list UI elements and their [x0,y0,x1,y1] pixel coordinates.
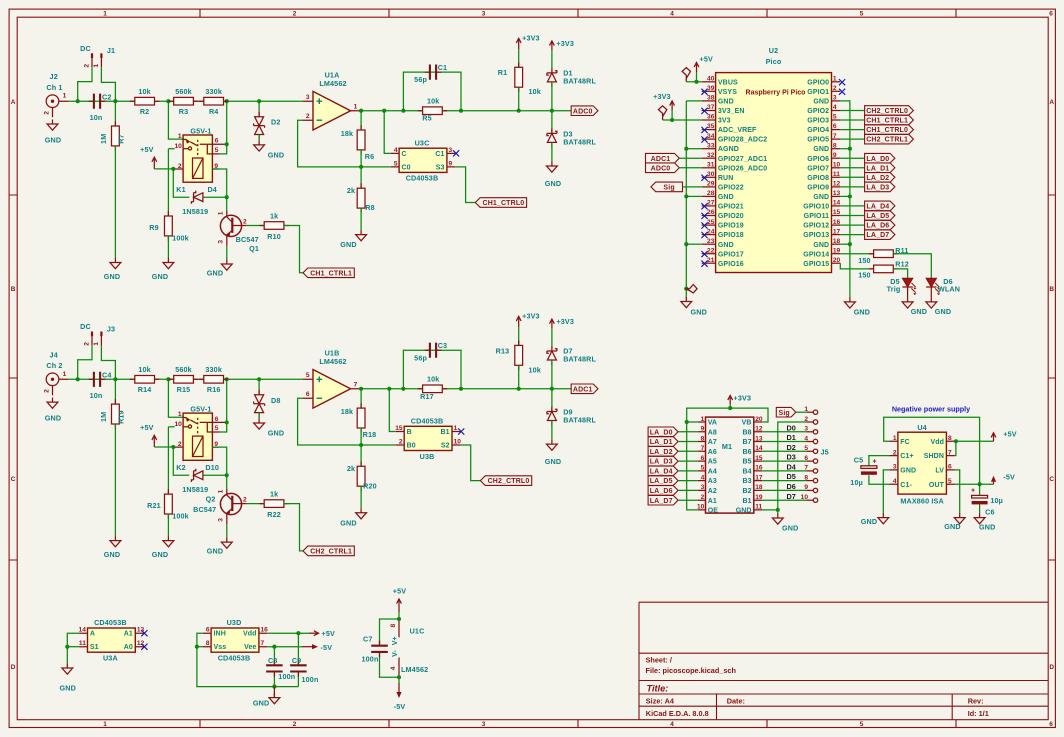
svg-text:GND: GND [253,699,269,708]
svg-text:GND: GND [690,307,706,316]
analog switch U3A CD4053B spare [79,618,145,662]
svg-text:ADC1: ADC1 [651,156,671,163]
resistor R12 150 LED series [840,259,909,279]
svg-text:1: 1 [218,211,225,215]
svg-text:D: D [1049,664,1054,671]
svg-text:1: 1 [93,64,100,68]
svg-text:7: 7 [261,640,265,647]
svg-text:B1: B1 [742,498,751,505]
global label Sig to J5 [776,407,796,417]
svg-text:GPIO10: GPIO10 [803,204,829,211]
capacitor C5 10u [850,456,889,487]
svg-text:C1: C1 [438,63,448,72]
svg-text:2: 2 [84,342,91,346]
svg-text:1: 1 [833,76,837,83]
svg-text:56p: 56p [414,75,427,84]
svg-text:C2: C2 [102,93,112,102]
resistor R9 100k [149,211,189,258]
svg-text:J2: J2 [50,72,58,81]
svg-text:24: 24 [707,228,715,235]
diode D4 1N5819 flyback [182,191,228,216]
svg-text:2: 2 [243,218,247,225]
resistor R21 100k [147,489,189,536]
svg-text:LA_D0: LA_D0 [650,429,673,436]
svg-text:-5V: -5V [1003,473,1015,482]
svg-text:6: 6 [701,455,705,462]
svg-text:5: 5 [948,478,952,485]
svg-text:2: 2 [178,441,182,448]
global label LA_D0 from U2 [840,153,895,163]
svg-text:File: picoscope.kicad_sch: File: picoscope.kicad_sch [646,666,736,675]
svg-text:10k: 10k [529,87,541,96]
svg-text:10: 10 [833,161,841,168]
power +3V3 at D1 [550,39,574,68]
wire: op-amp output net [359,109,571,113]
svg-text:GND: GND [545,179,561,188]
svg-text:GPIO3: GPIO3 [807,118,829,125]
svg-text:GPIO26_ADC0: GPIO26_ADC0 [718,165,767,172]
svg-text:Q2: Q2 [206,495,216,504]
svg-text:3: 3 [306,94,310,101]
svg-text:3: 3 [218,240,225,244]
wire: U3B control input [389,389,396,432]
svg-text:8: 8 [701,435,705,442]
svg-text:D7: D7 [787,492,796,501]
svg-text:16: 16 [261,627,269,634]
svg-text:+3V3: +3V3 [556,317,574,326]
svg-text:11: 11 [79,640,86,647]
wire and net label D4: M1 to J5 [762,463,806,472]
svg-text:CH1_CTRL1: CH1_CTRL1 [310,270,352,277]
wire: channel 2 input net [68,350,302,422]
title block [639,602,1048,720]
svg-text:J4: J4 [50,350,58,359]
svg-text:Raspberry Pi Pico: Raspberry Pi Pico [746,89,806,96]
svg-text:A3: A3 [708,478,717,485]
svg-text:6: 6 [215,138,219,145]
svg-text:S2: S2 [441,443,450,450]
global label LA_D1 to M1 [648,437,698,447]
power +5V at relay K1 [140,145,157,169]
svg-text:20: 20 [833,257,841,264]
svg-text:1M: 1M [99,412,108,422]
global label CH2_CTRL0 [460,445,531,485]
diode D3 BAT48RL clamp low [547,111,597,162]
svg-text:2: 2 [243,496,247,503]
wire: feedback to inverting input [298,398,396,447]
svg-text:LA_D5: LA_D5 [866,213,889,220]
global label LA_D3 from U2 [840,182,895,192]
svg-text:GND: GND [340,240,356,249]
svg-text:LA_D3: LA_D3 [866,185,889,192]
wire: U3A inputs to ground [65,633,79,663]
svg-text:3: 3 [833,95,837,102]
svg-text:A: A [90,631,95,638]
svg-text:U1C: U1C [410,627,425,636]
global label CH2_CTRL0 from U2 [840,106,913,116]
svg-text:GND: GND [104,272,120,281]
svg-text:32: 32 [707,152,715,159]
ground below U4 GND [861,513,889,526]
capacitor C3 56p feedback [403,341,461,389]
svg-text:22: 22 [707,247,715,254]
connector J4 BNC input [43,350,68,395]
svg-text:Vee: Vee [244,644,256,651]
svg-text:R6: R6 [365,152,375,161]
svg-text:C9: C9 [292,656,302,665]
svg-text:LM4562: LM4562 [319,79,346,88]
svg-text:ADC0: ADC0 [573,108,593,115]
svg-text:27: 27 [707,200,715,207]
connector J5 [801,406,829,502]
svg-text:GPIO7: GPIO7 [807,165,829,172]
svg-text:1k: 1k [270,212,278,221]
svg-text:3: 3 [482,721,486,728]
svg-text:GND: GND [813,146,829,153]
svg-text:B1: B1 [440,429,449,436]
svg-text:BAT48RL: BAT48RL [563,416,596,425]
svg-text:+3V3: +3V3 [653,92,671,101]
svg-text:4: 4 [394,147,398,154]
wire: U3D Vdd to +5V [267,631,309,635]
svg-text:2: 2 [833,85,837,92]
svg-text:1: 1 [178,411,182,418]
power -5V at U4 [991,473,1015,485]
svg-text:BC547: BC547 [236,235,259,244]
LED D6 WLAN [926,277,960,298]
svg-text:37: 37 [707,104,715,111]
svg-text:B: B [11,286,16,293]
svg-text:15: 15 [755,455,763,462]
svg-text:ADC1: ADC1 [573,386,593,393]
global label LA_D2 from U2 [840,173,895,183]
relay K2 G5V-1 [174,405,226,472]
svg-text:D4: D4 [207,185,217,194]
global label LA_D4 from U2 [840,201,895,211]
svg-text:LA_D4: LA_D4 [866,204,889,211]
svg-text:25: 25 [707,219,715,226]
power +5V at U1C [393,586,406,619]
svg-text:M1: M1 [722,442,732,451]
svg-text:560k: 560k [175,87,192,96]
global label LA_D7 from U2 [840,230,895,240]
svg-text:16: 16 [833,219,841,226]
wire: M1 supply net [685,406,768,510]
svg-text:GND: GND [545,457,561,466]
svg-text:13: 13 [755,435,763,442]
svg-text:1: 1 [178,133,182,140]
svg-text:+3V3: +3V3 [522,34,540,43]
svg-text:1k: 1k [270,490,278,499]
ground below D2 [254,140,285,159]
no-connect on U3B [458,428,464,434]
svg-text:31: 31 [707,161,715,168]
svg-text:GPIO8: GPIO8 [807,175,829,182]
svg-text:35: 35 [707,123,715,130]
svg-text:OUT: OUT [929,482,945,489]
svg-text:GPIO0: GPIO0 [807,79,829,86]
svg-text:A7: A7 [708,439,717,446]
svg-text:10: 10 [697,504,705,511]
svg-text:1: 1 [893,435,897,442]
svg-text:33: 33 [707,142,715,149]
svg-text:A5: A5 [708,459,717,466]
svg-text:GND: GND [813,242,829,249]
power -5V at U1C [394,677,406,711]
svg-text:Sheet: /: Sheet: / [646,655,672,664]
ground below D6 [926,297,951,315]
svg-text:A2: A2 [708,488,717,495]
wire and net label D6: M1 to J5 [762,482,806,491]
svg-text:CD4053B: CD4053B [406,174,439,183]
power -5V right arrow [302,643,332,652]
svg-text:J3: J3 [107,324,115,333]
no-connect pins on U2 right [839,79,845,95]
wire: M1 GND pin to ground [762,508,780,514]
svg-text:R17: R17 [420,392,434,401]
svg-text:A: A [11,99,16,106]
ground below R19 [104,536,121,559]
global label LA_D7 to M1 [648,495,698,505]
wire: channel 1 input net [68,72,302,144]
svg-text:9: 9 [701,426,705,433]
svg-text:GPIO13: GPIO13 [803,232,829,239]
global label LA_D4 to M1 [648,466,698,476]
svg-text:3: 3 [449,147,453,154]
svg-text:10k: 10k [138,365,150,374]
svg-text:100k: 100k [172,234,189,243]
svg-text:6: 6 [948,464,952,471]
svg-text:+5V: +5V [393,586,406,595]
svg-text:D8: D8 [271,396,281,405]
wire: 3V3 to +3V3 [663,118,702,122]
svg-text:B7: B7 [742,439,751,446]
svg-text:10µ: 10µ [850,478,863,487]
resistor R2 10k [130,87,159,116]
svg-text:LV: LV [935,468,944,475]
svg-text:18k: 18k [341,407,353,416]
ground below R20 [340,508,366,527]
global label ADC1 output [571,384,598,394]
svg-text:7: 7 [701,445,705,452]
svg-text:7: 7 [354,382,358,389]
svg-text:GND: GND [736,508,752,515]
global label ADC0 output [571,106,598,116]
svg-text:CH1_CTRL1: CH1_CTRL1 [866,118,908,125]
svg-text:GPIO19: GPIO19 [718,223,744,230]
no-connect on U3A pin 12 [141,644,147,650]
wire: U3C control input [384,111,391,154]
op-amp U1B LM4562 [303,349,362,409]
global label CH1_CTRL0 from U2 [840,125,913,135]
svg-text:2: 2 [893,449,897,456]
svg-text:U3B: U3B [420,452,435,461]
svg-text:56p: 56p [414,353,427,362]
svg-text:1M: 1M [99,134,108,144]
diode D7 BAT48RL clamp high [547,346,597,389]
svg-text:1: 1 [63,371,67,378]
svg-text:10: 10 [454,438,462,445]
svg-text:LA_D2: LA_D2 [650,449,673,456]
svg-text:R3: R3 [179,107,189,116]
svg-text:2: 2 [178,163,182,170]
resistor R14 10k [130,365,159,394]
svg-text:5: 5 [860,11,864,18]
svg-text:3: 3 [218,518,225,522]
svg-text:28: 28 [707,190,715,197]
switch J3 DC coupling jumper [80,322,115,350]
svg-text:INH: INH [214,631,226,638]
svg-text:GPIO22: GPIO22 [718,185,744,192]
svg-text:FC: FC [900,439,910,446]
ground below M1 [772,514,798,533]
svg-text:3: 3 [893,464,897,471]
svg-text:1: 1 [701,416,705,423]
svg-text:560k: 560k [175,365,192,374]
global label LA_D0 to M1 [648,427,698,437]
svg-text:2: 2 [293,721,297,728]
resistor R16 330k [199,365,228,394]
svg-text:MAX860 ISA: MAX860 ISA [900,497,943,506]
svg-text:29: 29 [707,181,715,188]
wire: U2 left ground bus [684,101,701,298]
wire: U4 GND pin to ground [883,470,889,513]
svg-text:330k: 330k [205,87,222,96]
svg-text:V-: V- [392,650,399,657]
global label ADC0 to U2 [646,163,680,173]
svg-text:5: 5 [306,372,310,379]
svg-text:GND: GND [59,684,75,693]
svg-text:LA_D3: LA_D3 [650,459,673,466]
connector J2 BNC input [43,72,68,117]
svg-text:+3V3: +3V3 [734,393,752,402]
svg-text:BC547: BC547 [193,505,216,514]
ground below R21 [152,536,174,559]
no-connect pins on U2 left [701,89,707,267]
svg-text:6: 6 [206,627,210,634]
ground below U3A [59,664,75,693]
svg-text:21: 21 [707,257,715,264]
bus buffer M1 [697,416,763,515]
svg-text:Vdd: Vdd [243,631,257,638]
svg-text:GPIO27_ADC1: GPIO27_ADC1 [718,156,767,163]
svg-text:BAT48RL: BAT48RL [563,77,596,86]
svg-text:R5: R5 [422,114,432,123]
wire and net label D0: M1 to J5 [762,423,806,432]
svg-text:Date:: Date: [727,697,745,706]
svg-text:GND: GND [900,468,916,475]
svg-text:10k: 10k [529,365,541,374]
svg-text:+5V: +5V [322,629,335,638]
svg-text:V+: V+ [392,636,399,645]
svg-text:A8: A8 [708,429,717,436]
svg-text:D10: D10 [205,463,219,472]
svg-text:1: 1 [454,425,458,432]
svg-text:GND: GND [207,269,223,278]
svg-text:VB: VB [742,420,752,427]
svg-text:R21: R21 [147,501,161,510]
svg-text:RUN: RUN [718,175,733,182]
svg-text:34: 34 [707,133,715,140]
svg-text:D5: D5 [787,472,796,481]
svg-text:14: 14 [79,627,87,634]
svg-text:C1-: C1- [900,482,912,489]
svg-text:R18: R18 [363,430,377,439]
svg-text:10n: 10n [90,113,103,122]
global label LA_D5 to M1 [648,476,698,486]
ground below Q2 [207,524,232,556]
ground below D9 [545,440,561,466]
svg-text:C1: C1 [435,151,444,158]
resistor R18 18k feedback [341,389,377,445]
wire and net label D3: M1 to J5 [762,453,806,462]
svg-text:GND: GND [268,429,284,438]
svg-text:38: 38 [707,95,715,102]
resistor R5 10k output [418,97,447,123]
svg-text:BAT48RL: BAT48RL [563,355,596,364]
svg-text:14: 14 [755,445,763,452]
diode D10 1N5819 flyback [182,469,228,494]
svg-text:LA_D5: LA_D5 [650,478,673,485]
svg-text:+: + [872,458,876,465]
wire: ADC1 [679,157,701,159]
svg-text:Q1: Q1 [249,244,259,253]
ground below R8 [340,230,366,249]
svg-text:SHDN: SHDN [924,453,944,460]
svg-text:GND: GND [813,194,829,201]
svg-text:10n: 10n [90,391,103,400]
svg-text:1N5819: 1N5819 [182,207,208,216]
svg-text:GPIO14: GPIO14 [803,251,829,258]
global label CH2_CTRL1 from U2 [840,134,913,144]
svg-text:VSYS: VSYS [718,89,737,96]
svg-text:3V3_EN: 3V3_EN [718,108,745,115]
svg-text:10k: 10k [427,375,439,384]
svg-text:2: 2 [293,11,297,18]
svg-text:150: 150 [858,256,870,265]
wire: U2 right ground bus [840,101,852,298]
svg-text:15: 15 [833,209,841,216]
svg-text:DC: DC [80,322,91,331]
svg-text:Title:: Title: [647,683,669,693]
svg-text:GND: GND [45,135,61,144]
wire: relay contact to Q1 collector [212,142,228,211]
svg-text:-5V: -5V [321,643,333,652]
svg-text:Negative power supply: Negative power supply [892,404,970,413]
svg-text:LA_D4: LA_D4 [650,469,673,476]
wire: U3D Vss/INH to ground rail [195,633,299,686]
svg-text:12: 12 [755,426,763,433]
svg-text:6: 6 [306,391,310,398]
svg-text:5: 5 [394,160,398,167]
svg-text:100n: 100n [302,675,319,684]
svg-text:KiCad E.D.A. 8.0.8: KiCad E.D.A. 8.0.8 [646,709,709,718]
global label LA_D6 from U2 [840,220,895,230]
svg-text:GPIO20: GPIO20 [718,213,744,220]
svg-text:OE: OE [708,508,719,515]
transistor Q1 BC547 [218,211,259,253]
svg-text:WLAN: WLAN [938,285,960,294]
svg-text:B6: B6 [742,449,751,456]
svg-text:1: 1 [103,11,107,18]
svg-text:18: 18 [833,238,841,245]
svg-text:C5: C5 [854,456,864,465]
resistor R20 2k [347,445,377,508]
svg-text:G5V-1: G5V-1 [190,405,211,414]
wire: VBUS to +5V [686,80,701,84]
svg-text:GPIO12: GPIO12 [803,223,829,230]
svg-text:Vdd: Vdd [930,439,944,446]
